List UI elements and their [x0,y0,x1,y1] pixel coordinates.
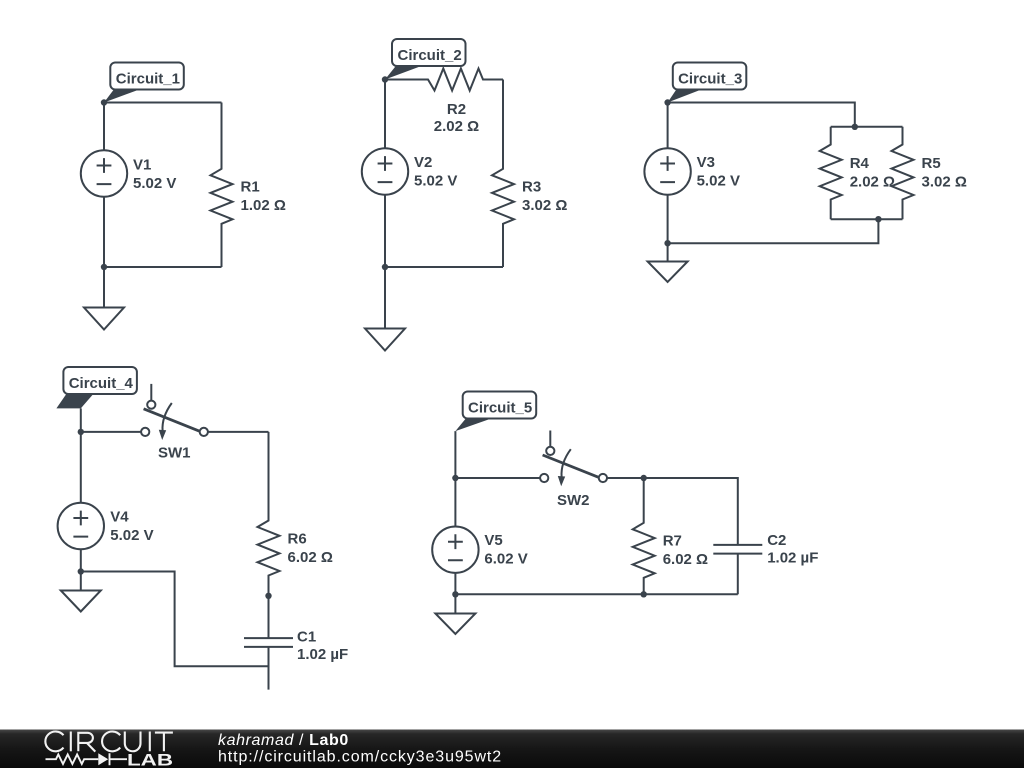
node junction c2 bottom [382,264,388,270]
footer bar background [0,730,1024,768]
svg-text:LAB: LAB [127,751,173,768]
wire return c3 [668,219,879,243]
svg-text:C2: C2 [767,532,786,549]
wire bottom c1 [104,266,222,268]
svg-text:R6: R6 [288,530,307,547]
svg-text:Circuit_4: Circuit_4 [69,375,134,392]
svg-text:kahramad / Lab0: kahramad / Lab0 [218,732,349,749]
ground c2 [365,267,405,351]
svg-text:2.02 Ω: 2.02 Ω [434,118,479,135]
logo resistor-diode symbol [46,753,128,765]
svg-text:3.02 Ω: 3.02 Ω [522,197,567,214]
svg-text:R1: R1 [241,179,260,196]
node junction c5 left [452,475,458,481]
ground c4 [61,572,101,612]
svg-text:1.02 µF: 1.02 µF [297,646,348,663]
resistor R2 [385,69,503,135]
node junction c4 r6-c1 [265,593,271,599]
wire left c4 [80,408,82,502]
voltage source V5 [432,527,528,595]
capacitor C2 [713,532,818,594]
svg-text:R4: R4 [850,155,870,172]
svg-text:Circuit_1: Circuit_1 [116,71,180,88]
resistor R1 [211,103,286,268]
node label Circuit_1 [104,63,184,103]
wire top c3 [668,103,855,127]
svg-text:6.02 Ω: 6.02 Ω [288,549,333,566]
svg-text:1.02 Ω: 1.02 Ω [241,197,286,214]
ground c1 [84,267,124,330]
svg-text:V2: V2 [414,154,432,171]
resistor R4 [820,127,895,219]
svg-text:5.02 V: 5.02 V [697,172,740,189]
wire rail bottom c3 [831,218,903,220]
node junction c2 top [382,76,388,82]
svg-text:R2: R2 [447,101,466,118]
wire sw1 to r6 [208,431,269,433]
wire bottom c4 [81,572,269,667]
voltage source V4 [58,503,154,572]
voltage source V2 [362,80,458,268]
svg-text:3.02 Ω: 3.02 Ω [922,174,967,191]
wire main c4 [81,431,141,433]
svg-text:1.02 µF: 1.02 µF [767,549,818,566]
svg-text:C1: C1 [297,629,316,646]
svg-text:SW2: SW2 [557,492,590,509]
wire rail top c3 [831,126,903,128]
svg-text:Circuit_5: Circuit_5 [468,400,532,417]
ground c5 [435,594,475,634]
node junction c3 top-left [664,99,670,105]
svg-text:V1: V1 [133,156,151,173]
svg-text:5.02 V: 5.02 V [414,172,457,189]
svg-text:R7: R7 [663,533,682,550]
voltage source V1 [81,103,177,268]
svg-text:5.02 V: 5.02 V [133,175,176,192]
node junction c5 bottom-mid [641,591,647,597]
node junction c5 r7-top [641,475,647,481]
node junction c1 bottom [101,264,107,270]
node label Circuit_3 [668,63,747,103]
node label Circuit_2 [385,39,466,80]
svg-text:V5: V5 [484,532,502,549]
node junction c4 bottom [78,568,84,574]
ground c3 [648,243,688,282]
wire main c5 [455,477,540,479]
node label Circuit_5 [455,392,536,432]
voltage source V3 [644,103,740,244]
node junction c1 top [101,99,107,105]
wire r7 to c2 [644,478,738,545]
svg-text:http://circuitlab.com/ccky3e3u: http://circuitlab.com/ccky3e3u95wt2 [218,749,502,766]
switch SW2 [540,431,607,509]
logo CIRCUIT wordmark [45,732,173,752]
wire bottom c2 [385,266,503,268]
wire sw2 to r7 [607,477,644,479]
svg-text:V4: V4 [110,508,129,525]
capacitor C1 [244,596,348,690]
logo diode triangle [98,753,108,765]
svg-text:6.02 Ω: 6.02 Ω [663,551,708,568]
node junction c3 rail-bottom [875,216,881,222]
svg-text:5.02 V: 5.02 V [110,527,153,544]
resistor R5 [892,127,967,219]
resistor R7 [633,478,708,594]
resistor R3 [492,80,567,268]
node junction c3 rail-top [852,124,858,130]
node label Circuit_4 [56,367,136,408]
svg-text:2.02 Ω: 2.02 Ω [850,174,895,191]
node junction c5 bottom-left [452,591,458,597]
svg-text:V3: V3 [697,154,715,171]
svg-text:Circuit_2: Circuit_2 [398,47,462,64]
svg-text:SW1: SW1 [158,444,191,461]
svg-text:Circuit_3: Circuit_3 [678,71,742,88]
node junction c3 bottom-left [664,240,670,246]
svg-text:6.02 V: 6.02 V [484,551,527,568]
svg-text:R5: R5 [922,155,941,172]
wire left c5 [454,431,456,526]
switch SW1 [141,384,208,461]
svg-text:R3: R3 [522,179,541,196]
wire top c1 [104,102,222,104]
wire bottom c5 [455,593,737,595]
resistor R6 [258,432,333,596]
node junction c4 left [78,429,84,435]
